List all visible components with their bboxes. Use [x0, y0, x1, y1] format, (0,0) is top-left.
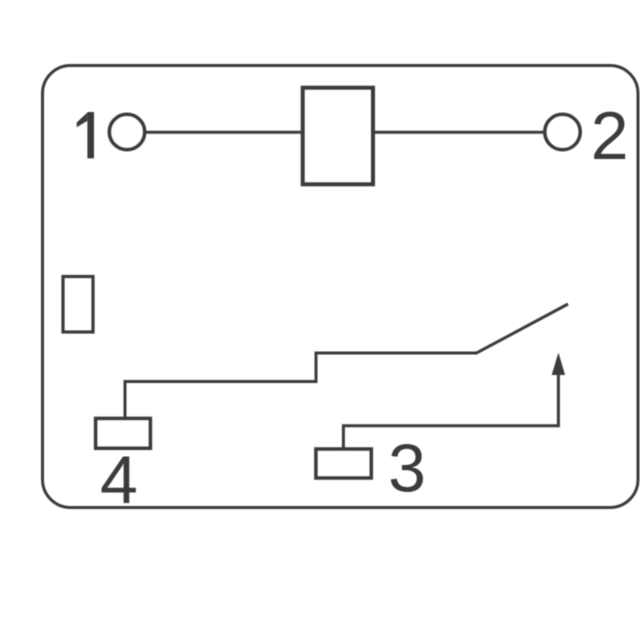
wire pin4 to contact pivot — [125, 353, 477, 418]
terminal circle pin 1 — [109, 114, 144, 149]
relay body outline — [43, 66, 639, 508]
wire pin1 to coil — [145, 131, 303, 134]
wire pin3 to contact arrow — [343, 375, 558, 450]
switch blade NO contact (open) — [475, 304, 568, 354]
terminal pad pin 4 — [96, 418, 151, 448]
coil K1 — [303, 88, 373, 185]
terminal pad pin 3 — [316, 449, 371, 478]
armature indicator rectangle — [63, 277, 93, 333]
pin label 1 — [77, 112, 94, 158]
terminal circle pin 2 — [545, 114, 581, 150]
svg-text:4: 4 — [100, 442, 138, 518]
svg-text:3: 3 — [388, 431, 426, 507]
wire coil to pin2 — [373, 131, 545, 134]
arrowhead contact — [552, 353, 565, 376]
svg-text:2: 2 — [591, 98, 629, 174]
